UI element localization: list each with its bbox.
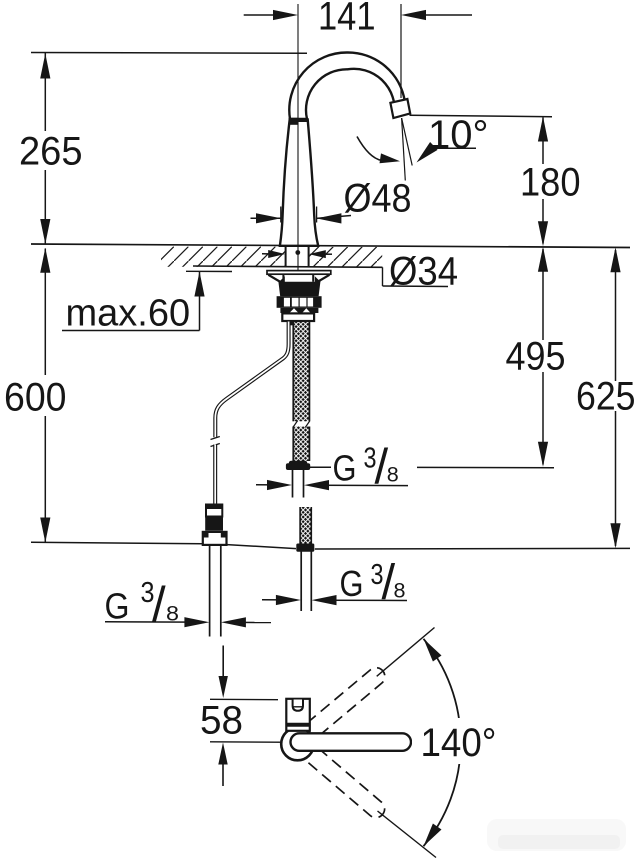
svg-text:8: 8 (394, 580, 406, 603)
dimension 495 (506, 247, 566, 467)
svg-text:495: 495 (506, 335, 566, 379)
pipe nut 2 (205, 517, 223, 530)
dimension diameter 34 (262, 250, 458, 294)
skirt line left (268, 275, 280, 282)
watermark (487, 819, 626, 851)
dimension 141 (244, 0, 472, 39)
svg-text:141: 141 (318, 0, 376, 39)
svg-text:180: 180 (520, 161, 581, 205)
counter hatch left (161, 247, 286, 267)
hose connector block (282, 313, 314, 321)
svg-text:58: 58 (200, 699, 243, 743)
dimension 600 (4, 248, 67, 543)
braided hose lower (300, 507, 311, 544)
skirt wedge right (315, 276, 321, 282)
svg-text:G: G (105, 586, 130, 627)
curved arrow at outlet (357, 137, 400, 164)
svg-text:G: G (340, 563, 364, 604)
svg-text:max.60: max.60 (66, 293, 191, 335)
label G 3/8 third (105, 577, 272, 632)
label G 3/8 second (262, 556, 407, 610)
lower hose nut (296, 544, 314, 552)
svg-text:/: / (152, 578, 166, 632)
angle wedge line vertical (402, 118, 406, 181)
counter top line (31, 244, 630, 248)
flow direction arrow (219, 646, 228, 699)
neck right edge (312, 274, 314, 282)
top view spout (291, 733, 412, 751)
bottom level line (31, 542, 630, 549)
castle nut (277, 296, 322, 308)
dashed swivel position upper (286, 664, 388, 754)
dimension diameter 48 (251, 177, 412, 224)
lower hose pipe (301, 552, 311, 612)
joint notch (289, 118, 298, 125)
counter hatch right (309, 247, 383, 267)
counter bottom line (193, 266, 383, 267)
hose end fitting (289, 461, 308, 470)
braided hose upper (291, 322, 312, 461)
svg-text:600: 600 (4, 376, 67, 420)
svg-text:Ø48: Ø48 (344, 177, 412, 221)
svg-text:Ø34: Ø34 (389, 250, 458, 294)
spout tip reference line (410, 115, 553, 116)
extension line at spout tip (400, 4, 402, 98)
aerator (390, 99, 410, 118)
pipe break (211, 437, 220, 447)
dimension 265 (19, 53, 83, 244)
swivel extension line upper (377, 628, 435, 677)
top view base circle (281, 728, 314, 761)
skirt line right (317, 275, 329, 282)
connector foot left (289, 321, 294, 325)
pipe nut 1 (206, 505, 222, 517)
supply pipe tail (210, 545, 221, 637)
counter notch underline (383, 285, 449, 288)
top reference line (31, 52, 307, 55)
top view sensor housing (286, 699, 310, 731)
skirt wedge left (279, 276, 285, 282)
label max.60 (62, 271, 232, 334)
faucet gooseneck tube (289, 52, 405, 119)
serrated band (280, 308, 318, 313)
hose end pipe (293, 470, 304, 498)
angle wedge line tilted (402, 118, 413, 166)
flange (267, 271, 331, 275)
svg-text:265: 265 (19, 130, 83, 174)
dimension 180 (520, 117, 581, 247)
svg-text:G: G (333, 448, 357, 489)
swivel extension line lower (378, 811, 437, 858)
dimension 58 (200, 699, 298, 787)
svg-text:625: 625 (576, 375, 636, 419)
sensor supply pipe upper run (215, 322, 288, 438)
mounting shank left edge (285, 247, 287, 268)
joint line (289, 120, 309, 122)
faucet body column (280, 120, 318, 246)
label 10 degrees (417, 113, 489, 163)
dashed swivel position lower (287, 731, 388, 821)
neck left edge (282, 274, 284, 282)
counter notch vertical (382, 267, 384, 286)
sensor supply pipe lower run (213, 445, 217, 505)
svg-text:140°: 140° (421, 721, 497, 765)
connector foot right (305, 321, 310, 325)
label G 3/8 first (256, 440, 554, 494)
mounting shank right edge (308, 247, 310, 268)
center dot (295, 250, 300, 255)
dimension 625 (576, 247, 636, 548)
lock ring band (278, 282, 320, 296)
svg-text:8: 8 (387, 464, 399, 487)
swivel arc 140 (424, 639, 461, 846)
pipe nut 3 (203, 532, 227, 545)
label 140 degrees (412, 718, 502, 765)
centerline (297, 4, 299, 270)
